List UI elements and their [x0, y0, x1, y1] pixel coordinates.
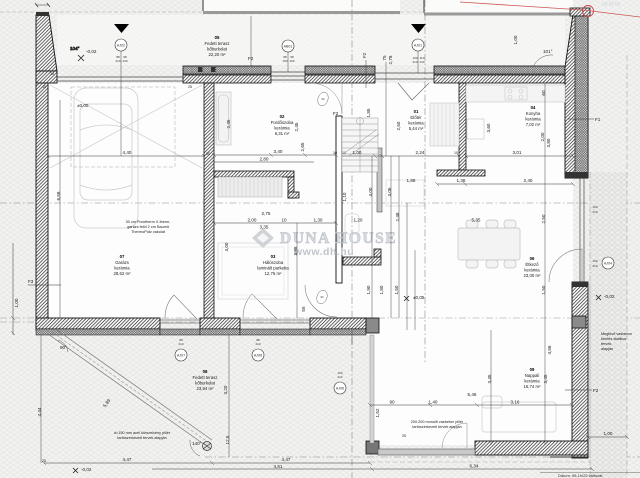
svg-text:4,00: 4,00 — [368, 187, 373, 196]
ramp diagonal lines — [48, 330, 212, 445]
dim row y221 — [214, 222, 336, 224]
svg-text:09: 09 — [530, 367, 535, 372]
front wall segment A — [183, 66, 271, 83]
svg-text:01: 01 — [414, 109, 419, 114]
steel column symbol — [203, 442, 212, 451]
svg-text:2,00: 2,00 — [248, 218, 257, 223]
right wall opening (glass door) — [549, 178, 584, 282]
svg-text:AJ01: AJ01 — [414, 44, 422, 48]
svg-text:Hálószoba: Hálószoba — [263, 260, 284, 265]
svg-text:6,31 m²: 6,31 m² — [275, 131, 290, 136]
black triangle marker left — [114, 24, 129, 33]
right wall outer offset line — [589, 284, 591, 456]
svg-text:1,00: 1,00 — [14, 298, 19, 307]
svg-text:F2: F2 — [333, 111, 339, 116]
svg-text:210: 210 — [178, 342, 183, 346]
svg-text:1,90: 1,90 — [366, 285, 371, 294]
bathroom wall vertical — [288, 177, 294, 198]
top neighbour strip left — [0, 0, 400, 13]
svg-text:7,02 m²: 7,02 m² — [526, 122, 541, 127]
svg-text:2,80: 2,80 — [260, 157, 269, 162]
hall wall vertical — [336, 116, 342, 283]
svg-text:3,80: 3,80 — [546, 138, 551, 147]
svg-text:2,75: 2,75 — [262, 211, 271, 216]
svg-text:3,01: 3,01 — [513, 150, 522, 155]
circle AB01 — [282, 40, 294, 52]
svg-text:4,40: 4,40 — [123, 150, 132, 155]
svg-text:4,47: 4,47 — [123, 457, 132, 462]
svg-text:±0,05: ±0,05 — [413, 295, 425, 300]
svg-text:kerámia: kerámia — [525, 117, 541, 122]
wc wall L — [343, 249, 381, 265]
interior wall garage/house — [204, 83, 214, 318]
kitchen wall foot — [437, 170, 485, 176]
svg-text:90°: 90° — [60, 345, 67, 350]
bed — [218, 243, 288, 299]
watermark logo diamond — [252, 228, 274, 248]
circle AJ02 — [115, 39, 127, 51]
svg-text:240: 240 — [419, 60, 424, 64]
svg-text:2,50: 2,50 — [541, 214, 546, 223]
svg-text:laminált parketta: laminált parketta — [257, 266, 289, 271]
bottom-right wall — [475, 441, 588, 455]
room label 03 — [257, 254, 289, 276]
hall closet faint — [386, 180, 424, 206]
svg-text:2,65: 2,65 — [300, 142, 305, 151]
circle AJ04 — [602, 257, 614, 269]
svg-text:1,30: 1,30 — [314, 218, 323, 223]
svg-text:3,45: 3,45 — [487, 374, 492, 383]
svg-text:28,62 m²: 28,62 m² — [114, 271, 132, 276]
svg-text:2,50: 2,50 — [396, 121, 401, 130]
svg-text:Fürdőszoba: Fürdőszoba — [271, 120, 294, 125]
svg-text:4,00: 4,00 — [224, 242, 229, 251]
left vertical dim — [12, 243, 14, 335]
svg-text:3,40: 3,40 — [274, 149, 283, 154]
svg-text:kerámia: kerámia — [524, 379, 540, 384]
svg-text:Étkező: Étkező — [525, 262, 539, 267]
room label 07 — [114, 254, 132, 276]
svg-text:2,45: 2,45 — [226, 119, 231, 128]
svg-text:3,35: 3,35 — [260, 225, 269, 230]
dim bottom chain — [44, 462, 370, 464]
svg-text:25: 25 — [188, 85, 192, 89]
svg-text:Meglévő vasbeton: Meglévő vasbeton — [601, 332, 632, 336]
dim 3,40 — [214, 154, 336, 156]
svg-text:1,40: 1,40 — [429, 400, 438, 405]
corner column bottom wall — [366, 318, 379, 333]
svg-text:6,34: 6,34 — [470, 464, 479, 469]
red circle — [583, 6, 594, 17]
svg-text:5,35: 5,35 — [472, 218, 481, 223]
svg-text:55: 55 — [301, 306, 306, 312]
svg-text:kerítés statikus: kerítés statikus — [601, 337, 626, 341]
svg-text:75: 75 — [382, 55, 387, 61]
svg-text:1,00: 1,00 — [353, 150, 362, 155]
svg-text:210: 210 — [592, 264, 597, 268]
svg-text:60: 60 — [541, 90, 546, 96]
axis dashed vertical B — [424, 0, 426, 362]
svg-text:3,16: 3,16 — [511, 400, 520, 405]
svg-text:30 cm Porotherm X-therm,: 30 cm Porotherm X-therm, — [126, 220, 171, 224]
dim 1,00 right — [588, 436, 627, 438]
room label 06 — [524, 256, 542, 278]
svg-text:1,52: 1,52 — [375, 408, 380, 417]
circle AJ07 — [175, 349, 187, 361]
svg-text:104°: 104° — [70, 46, 80, 51]
svg-text:1,50: 1,50 — [394, 285, 399, 294]
svg-text:23,94 m²: 23,94 m² — [197, 386, 215, 391]
svg-text:45: 45 — [42, 85, 46, 89]
thin partition — [377, 148, 382, 212]
room label 04 — [525, 105, 541, 127]
bathroom wall foot — [288, 192, 299, 198]
svg-text:90: 90 — [389, 400, 395, 405]
right exterior wall upper — [565, 8, 590, 178]
door AJ08 opening — [240, 294, 310, 335]
garage ceiling X mark — [50, 85, 202, 168]
angle 101 — [533, 49, 553, 67]
interior rooms white fill — [48, 83, 204, 318]
svg-text:100: 100 — [592, 259, 597, 263]
right neighbour terrace hex patch — [590, 172, 627, 478]
svg-text:5,44 m²: 5,44 m² — [409, 126, 424, 131]
stacked opening size labels — [115, 55, 597, 379]
svg-text:210: 210 — [337, 375, 342, 379]
svg-text:kerámia: kerámia — [524, 268, 540, 273]
wc toilet faint — [345, 214, 359, 234]
svg-text:08: 08 — [203, 369, 208, 374]
column at right wall — [572, 316, 586, 328]
note porotherm — [126, 220, 171, 234]
bathroom door arc — [311, 83, 342, 114]
dim row y183 — [437, 183, 573, 185]
window AB01 lines — [271, 72, 305, 80]
kitchen wall — [459, 83, 466, 170]
svg-text:100: 100 — [592, 205, 597, 209]
garage door dashed — [71, 87, 175, 167]
svg-text:07: 07 — [120, 254, 125, 259]
bottom wall segment mid — [200, 318, 240, 335]
svg-text:F3: F3 — [28, 279, 34, 284]
note existing wall — [601, 332, 632, 351]
svg-text:AJ08: AJ08 — [254, 354, 262, 358]
axis dashed right — [626, 55, 628, 478]
circle AJ01 — [412, 39, 424, 51]
top neighbour strip right — [400, 0, 588, 14]
dim 5,46 3,16 1,40 — [370, 404, 572, 406]
svg-text:3,98: 3,98 — [293, 246, 298, 255]
room label 05 — [204, 35, 229, 57]
svg-text:garázs felöl 2 cm Baumit: garázs felöl 2 cm Baumit — [127, 225, 170, 229]
room label 01 — [408, 109, 424, 131]
svg-text:101°: 101° — [543, 49, 553, 54]
svg-text:Dátum: 98.1h/25 változat: Dátum: 98.1h/25 változat — [558, 473, 603, 478]
svg-text:Garázs: Garázs — [115, 260, 129, 265]
svg-text:2,45: 2,45 — [294, 122, 299, 131]
svg-text:210: 210 — [115, 59, 120, 63]
wardrobe striped — [218, 177, 282, 197]
svg-text:kőburkolat: kőburkolat — [207, 47, 228, 52]
svg-text:2,40: 2,40 — [524, 178, 533, 183]
svg-text:140°: 140° — [192, 441, 202, 446]
front door AJ01 opening — [375, 73, 434, 100]
front wall segment C — [434, 66, 573, 83]
svg-text:F2: F2 — [362, 52, 367, 58]
svg-text:12,5: 12,5 — [225, 435, 230, 444]
axis dashed horizontal mid — [0, 202, 640, 204]
svg-text:www: www — [601, 1, 621, 8]
stairs — [342, 118, 379, 173]
svg-text:kerámia: kerámia — [408, 121, 424, 126]
svg-text:10: 10 — [342, 151, 346, 155]
svg-text:alapján: alapján — [601, 347, 613, 351]
svg-text:1,85: 1,85 — [366, 108, 371, 117]
svg-text:3,60: 3,60 — [486, 123, 491, 132]
svg-text:F2: F2 — [593, 388, 599, 393]
svg-text:03: 03 — [271, 254, 276, 259]
svg-text:1,36: 1,36 — [457, 178, 466, 183]
svg-text:www.dh.hu: www.dh.hu — [293, 246, 354, 258]
room label 09 — [524, 367, 542, 389]
svg-text:3,45: 3,45 — [543, 374, 548, 383]
svg-text:30: 30 — [50, 72, 54, 76]
small wall size labels — [42, 72, 458, 463]
dimension line top garage — [48, 155, 204, 157]
svg-text:Fedett terasz: Fedett terasz — [204, 41, 229, 46]
svg-text:1,00: 1,00 — [513, 35, 518, 44]
bathroom tub — [216, 92, 231, 145]
thin vertical dim lines — [41, 16, 545, 463]
svg-text:F1: F1 — [595, 117, 601, 122]
svg-text:210: 210 — [412, 60, 417, 64]
svg-text:210: 210 — [592, 210, 597, 214]
svg-text:d=150 mm acél körszelvény pill: d=150 mm acél körszelvény pillér — [114, 431, 171, 435]
svg-text:2,78: 2,78 — [388, 55, 393, 64]
F labels — [28, 52, 601, 393]
svg-text:200.200 monolit vasbeton pillé: 200.200 monolit vasbeton pillér — [411, 420, 464, 424]
circle AJ06 — [334, 382, 346, 394]
level mark star — [78, 55, 84, 61]
svg-text:06: 06 — [530, 256, 535, 261]
svg-text:Konyha: Konyha — [526, 111, 541, 116]
svg-text:Fedett terasz: Fedett terasz — [192, 375, 217, 380]
svg-text:tartószerkezeti tervek alapján: tartószerkezeti tervek alapján — [117, 436, 166, 440]
angle 140 — [190, 440, 202, 456]
svg-text:4,06: 4,06 — [387, 187, 392, 196]
terrace door arc — [442, 423, 467, 448]
svg-text:DUNA HOUSE: DUNA HOUSE — [280, 230, 397, 247]
svg-text:AB01: AB01 — [284, 45, 293, 49]
axis dashed vertical A — [351, 0, 353, 478]
garage door opening lines — [57, 76, 183, 78]
dining table — [458, 220, 520, 268]
axis dashed horizontal lower — [0, 317, 640, 319]
svg-text:tervek: tervek — [601, 342, 611, 346]
dashed below bottom wall — [370, 461, 592, 463]
svg-text:Nappali: Nappali — [525, 373, 540, 378]
svg-text:-0,02: -0,02 — [86, 49, 97, 54]
svg-text:04: 04 — [531, 105, 536, 110]
wall anchor marks — [198, 67, 203, 72]
svg-text:240: 240 — [122, 59, 127, 63]
circle AJ08 — [252, 349, 264, 361]
dim 3,01 — [466, 155, 573, 157]
svg-text:5,46: 5,46 — [468, 392, 477, 397]
terrace slab edge band bottom — [378, 449, 475, 455]
svg-text:2,24: 2,24 — [416, 150, 425, 155]
kitchen counter top — [430, 85, 565, 146]
note steel column — [114, 431, 171, 440]
svg-text:F2: F2 — [248, 56, 254, 61]
svg-text:-0,02: -0,02 — [81, 467, 92, 472]
terrace 05 lighter strip — [57, 15, 565, 65]
svg-text:AJ06: AJ06 — [336, 387, 344, 391]
svg-text:kerámia: kerámia — [274, 126, 290, 131]
svg-text:23,00 m²: 23,00 m² — [524, 273, 542, 278]
bedroom door arc + label — [305, 285, 337, 317]
svg-text:1,80: 1,80 — [379, 285, 384, 294]
terrace corner column — [366, 441, 379, 454]
svg-text:150: 150 — [282, 59, 287, 63]
left exterior wall (angled top) — [36, 12, 57, 330]
door AJ07 opening — [160, 295, 200, 335]
room label 08 — [192, 369, 217, 391]
black triangle marker mid — [411, 24, 426, 33]
svg-text:05: 05 — [215, 35, 220, 40]
svg-text:30: 30 — [206, 152, 210, 156]
svg-text:AJ04: AJ04 — [604, 262, 612, 266]
svg-text:4,51: 4,51 — [274, 464, 283, 469]
note concrete column — [411, 420, 464, 429]
svg-text:AJ02: AJ02 — [117, 44, 125, 48]
right exterior wall lower — [572, 282, 588, 458]
svg-text:10: 10 — [281, 218, 287, 223]
footer note — [540, 472, 640, 474]
svg-text:25: 25 — [402, 434, 406, 438]
svg-text:25: 25 — [42, 459, 46, 463]
svg-text:1,10: 1,10 — [342, 192, 347, 201]
door label ellipse — [316, 91, 330, 108]
svg-text:3,20: 3,20 — [223, 385, 228, 394]
svg-text:1,50: 1,50 — [541, 285, 546, 294]
svg-text:160: 160 — [289, 59, 294, 63]
svg-text:4,47: 4,47 — [282, 457, 291, 462]
svg-text:-0,02: -0,02 — [604, 294, 615, 299]
terrace left edge band — [370, 335, 374, 443]
svg-text:tartószerkezeti tervek alapján: tartószerkezeti tervek alapján — [412, 425, 461, 429]
svg-text:2,00: 2,00 — [540, 132, 545, 141]
angle 90 — [58, 340, 68, 352]
bathroom wall horizontal — [214, 171, 294, 177]
svg-text:4,56: 4,56 — [547, 345, 552, 354]
svg-text:210: 210 — [255, 342, 260, 346]
svg-text:Előtér: Előtér — [410, 115, 422, 120]
car — [74, 88, 138, 228]
front wall segment B — [305, 66, 375, 83]
bottom wall segment right — [310, 318, 366, 335]
svg-text:kőburkolat: kőburkolat — [195, 381, 216, 386]
top-left mini dim — [35, 3, 50, 7]
garage front corner block — [36, 71, 57, 83]
svg-text:2,48: 2,48 — [395, 212, 400, 221]
svg-text:1,88: 1,88 — [407, 178, 416, 183]
svg-text:6,58: 6,58 — [56, 191, 61, 200]
svg-text:kerámia: kerámia — [114, 266, 130, 271]
axis dashed bottom — [205, 456, 640, 458]
svg-text:AJ07: AJ07 — [177, 354, 185, 358]
svg-text:16,74 m²: 16,74 m² — [524, 384, 542, 389]
dim 2,80 — [214, 161, 314, 163]
bottom wall segment garage — [36, 318, 160, 335]
svg-text:1,20: 1,20 — [354, 218, 363, 223]
red boundary line — [460, 2, 640, 17]
svg-text:10: 10 — [333, 151, 337, 155]
rotated dims cluster — [37, 35, 552, 444]
svg-text:ThermoPutz vakolat: ThermoPutz vakolat — [131, 230, 166, 234]
svg-text:1,00: 1,00 — [604, 431, 613, 436]
svg-text:22,20 m²: 22,20 m² — [209, 52, 227, 57]
sofa — [482, 396, 556, 432]
svg-text:4,44: 4,44 — [37, 407, 42, 416]
room label 02 — [271, 114, 294, 136]
dim 2,24 — [342, 155, 459, 157]
svg-text:02: 02 — [280, 114, 285, 119]
svg-text:±0,00: ±0,00 — [77, 103, 89, 108]
svg-text:12,76 m²: 12,76 m² — [265, 271, 283, 276]
pantry shelves lines — [434, 103, 454, 146]
